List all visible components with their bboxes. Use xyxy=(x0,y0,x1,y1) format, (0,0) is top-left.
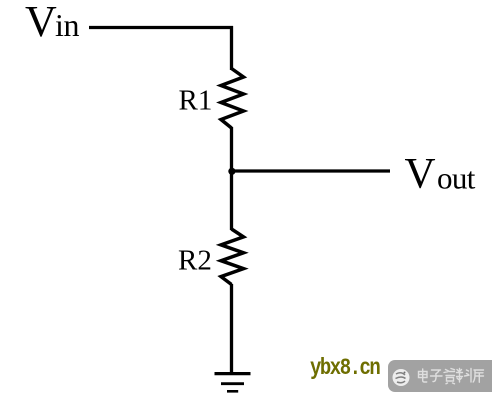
resistor R1 xyxy=(221,69,244,129)
glyph ku xyxy=(473,370,483,382)
svg-text:R1: R1 xyxy=(179,85,213,117)
ground xyxy=(215,374,251,392)
glyph zi2 xyxy=(444,369,455,384)
node Vout junction xyxy=(228,168,235,175)
glyph zi xyxy=(431,370,443,382)
watermark logo circle xyxy=(393,369,410,386)
wire R1 to R2 xyxy=(230,127,233,230)
wire R2 to ground xyxy=(230,284,233,373)
wire Vin to corner xyxy=(89,26,233,29)
wire node to Vout xyxy=(232,169,391,172)
svg-text:in: in xyxy=(55,7,79,43)
svg-text:V: V xyxy=(25,0,57,46)
watermark box 电子资料库 xyxy=(388,360,492,392)
glyph liao xyxy=(457,369,472,383)
wire corner down to R1 xyxy=(230,26,233,70)
svg-text:ybx8.cn: ybx8.cn xyxy=(310,355,380,381)
svg-text:out: out xyxy=(437,161,476,196)
glyph dian xyxy=(419,369,428,382)
svg-text:R2: R2 xyxy=(178,245,212,277)
watermark text dianzi ziliaoku (CJK strokes) xyxy=(419,369,484,384)
resistor R2 xyxy=(221,229,244,285)
svg-text:V: V xyxy=(405,151,436,198)
